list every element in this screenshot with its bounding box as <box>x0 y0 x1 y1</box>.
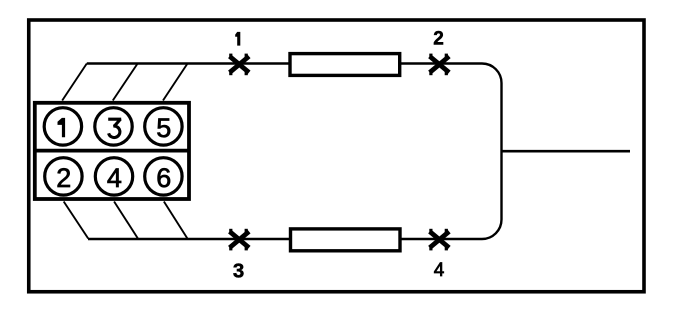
oxygen sensor 1 (X mark) <box>229 54 249 76</box>
cylinder 3 circle <box>95 108 132 145</box>
svg-text:3: 3 <box>233 259 244 282</box>
wire: exhaust runner top 1 <box>62 64 87 101</box>
cylinder 6 circle <box>145 158 182 195</box>
catalytic converter bottom <box>291 229 401 251</box>
cylinder 1 circle <box>44 108 81 145</box>
cylinder 4 circle <box>95 158 132 195</box>
wire: top exhaust pipe, right U-bend, bottom exhaust pipe <box>87 64 502 240</box>
outer border frame <box>29 20 644 292</box>
svg-text:2: 2 <box>56 163 71 193</box>
cylinder 5 circle <box>145 108 182 145</box>
svg-text:4: 4 <box>107 163 122 193</box>
cylinder 3 number <box>108 119 121 138</box>
engine block (cylinder head box) <box>35 103 189 199</box>
oxygen sensor 4 (X mark) <box>429 229 449 251</box>
wire: exhaust runner bottom 1 <box>64 202 88 239</box>
sensor label 1 <box>235 32 240 46</box>
svg-text:4: 4 <box>434 260 445 281</box>
cylinder 1 number <box>58 118 66 137</box>
wire: exhaust runner top 3 <box>163 64 188 101</box>
wire: tailpipe center line <box>502 150 631 153</box>
engine block divider line <box>33 149 189 153</box>
svg-text:5: 5 <box>156 113 171 143</box>
svg-text:2: 2 <box>433 29 444 50</box>
svg-text:6: 6 <box>156 163 171 193</box>
catalytic converter top <box>290 54 400 76</box>
wire: exhaust runner bottom 3 <box>164 202 188 239</box>
oxygen sensor 3 (X mark) <box>229 229 249 251</box>
wire: exhaust runner bottom 2 <box>114 202 138 239</box>
oxygen sensor 2 (X mark) <box>429 54 449 76</box>
wire: exhaust runner top 2 <box>113 64 138 101</box>
cylinder 2 circle <box>45 158 82 195</box>
